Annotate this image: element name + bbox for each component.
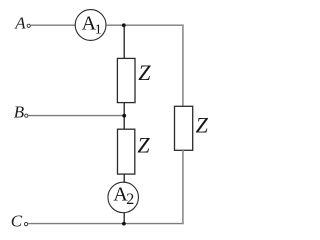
svg-text:Z: Z: [138, 60, 151, 85]
svg-text:Z: Z: [137, 132, 150, 157]
impedance Z2: [118, 129, 135, 174]
terminal C: [24, 222, 27, 225]
wire junction to Z2: [123, 116, 125, 130]
wire B to junction: [29, 115, 125, 117]
ammeter A1: [75, 10, 106, 41]
wire A to ammeter A1: [31, 24, 75, 26]
svg-text:C: C: [11, 212, 23, 231]
wire A1 to top-right corner: [106, 24, 184, 26]
svg-text:Z: Z: [196, 113, 209, 138]
wire Z3 to bottom-right corner: [182, 150, 184, 224]
impedance Z3: [175, 106, 193, 150]
wire Z2 to ammeter A2: [123, 174, 125, 182]
junction node bottom: [122, 222, 126, 226]
terminal A: [27, 24, 30, 27]
terminal B: [25, 114, 28, 117]
wire Z1 to node B junction: [123, 103, 125, 116]
impedance Z1: [117, 58, 135, 102]
svg-text:2: 2: [126, 191, 134, 208]
wire junction to Z1: [123, 25, 125, 59]
svg-text:1: 1: [95, 23, 102, 38]
ammeter A2: [108, 182, 139, 213]
junction node middle: [122, 114, 126, 118]
junction node top: [122, 23, 126, 27]
wire A2 to bottom wire: [123, 213, 125, 224]
wire top-right corner to Z3: [182, 25, 184, 107]
wire C bottom: [28, 223, 184, 225]
svg-text:B: B: [14, 103, 25, 122]
svg-text:A: A: [14, 14, 26, 33]
